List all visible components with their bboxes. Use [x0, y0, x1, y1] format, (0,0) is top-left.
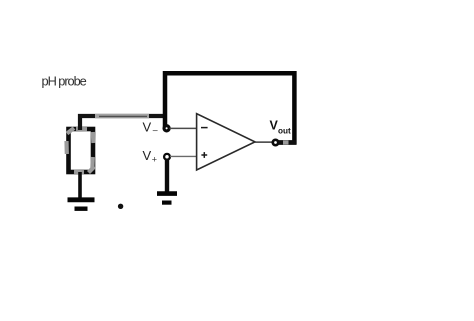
svg-text:V: V — [143, 120, 152, 135]
wire: V- node to op-amp — [170, 127, 198, 129]
wire: op-amp output — [255, 141, 273, 143]
label Vout — [270, 119, 292, 136]
wire texture: dark core in grey patch — [99, 115, 147, 117]
svg-text:V: V — [143, 148, 152, 163]
wire texture: grey marker patch on probe wire — [95, 114, 149, 118]
wire: V+ node to ground — [165, 159, 169, 193]
resistor R1 (pH probe impedance) — [69, 129, 94, 172]
node: solution dot — [118, 204, 123, 209]
wire: V+ node to op-amp — [170, 155, 197, 157]
node V- (inverting input) — [164, 126, 169, 131]
node Vout — [273, 140, 278, 145]
wire: feedback loop (output to V-) — [165, 73, 294, 142]
svg-text:−: − — [152, 126, 158, 137]
label V- — [143, 120, 159, 138]
op-amp plus sign — [201, 152, 207, 158]
svg-text:out: out — [278, 127, 291, 136]
svg-text:pH probe: pH probe — [42, 74, 87, 89]
svg-text:+: + — [152, 155, 157, 165]
wire: resistor bottom to ground — [78, 172, 82, 198]
node V+ (non-inverting input) — [164, 154, 170, 160]
resistor texture: grey marker patches — [67, 128, 95, 173]
ground (left, below resistor) — [68, 200, 95, 209]
ground (right, below V+) — [157, 194, 177, 203]
wire: resistor top to V- node — [80, 116, 164, 130]
label V+ — [143, 148, 158, 165]
wire texture: grey dash on output stub — [283, 140, 289, 144]
wire: output node stub to feedback — [279, 140, 297, 145]
op-amp U1 triangle — [197, 114, 255, 170]
op-amp minus sign — [201, 127, 208, 129]
